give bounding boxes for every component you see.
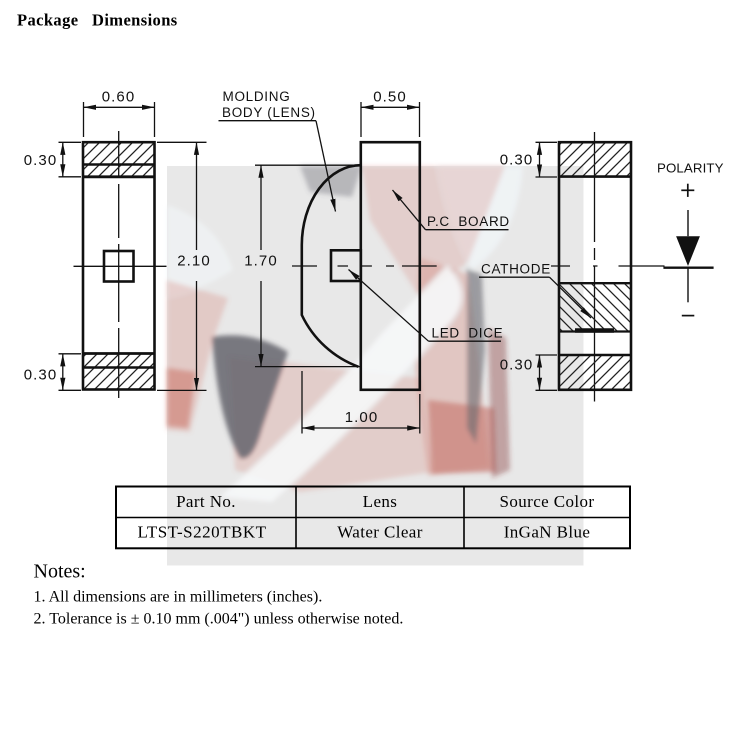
svg-text:LTST-S220TBKT: LTST-S220TBKT [138,523,267,542]
left view top hatch band [84,143,154,177]
svg-text:2.10: 2.10 [177,253,211,270]
middle view horizontal centerline [292,265,437,267]
svg-text:POLARITY: POLARITY [657,161,724,176]
left view center square [104,251,134,282]
watermark red left bright [167,368,196,428]
svg-text:InGaN Blue: InGaN Blue [504,523,591,542]
svg-text:0.30: 0.30 [500,356,534,373]
watermark red right column [414,258,490,476]
left view [59,102,207,403]
dim 0.30 top-right line [539,142,541,177]
right view cathode hatch band [560,284,630,332]
dim 1.70 line upper segment [260,165,262,250]
watermark maroon right edge [488,328,510,478]
watermark dark sliver right [467,268,485,444]
pc board outline [361,142,420,390]
svg-text:2. Tolerance is ± 0.10 mm (.00: 2. Tolerance is ± 0.10 mm (.004") unless… [34,611,404,628]
notes [34,561,404,628]
dim 1.70 extension lines [255,164,358,166]
left view square centerline cross [104,265,134,267]
svg-text:Water Clear: Water Clear [337,523,423,542]
right view bottom hatch band [560,356,630,390]
svg-text:0.50: 0.50 [373,88,407,105]
svg-text:Package: Package [17,11,78,30]
table [116,487,630,549]
svg-text:0.30: 0.30 [24,366,58,383]
cathode leader arrow [550,277,592,318]
middle view texts [244,88,407,426]
svg-text:P.C BOARD: P.C BOARD [427,214,510,229]
right view vertical centerline [594,132,596,402]
left view dimension texts [24,88,211,383]
right view top hatch band [560,143,630,176]
svg-text:Part No.: Part No. [176,492,236,511]
right view bottom band top line [559,354,631,357]
dim 0.50 line [361,106,420,108]
dim 0.30 top-left line [62,142,64,177]
dim 0.30 bottom-left line [62,354,64,391]
watermark white swoosh diagonal [220,266,461,502]
diode cathode bar [663,267,713,269]
svg-text:0.60: 0.60 [102,88,136,105]
watermark red top band [362,166,505,298]
right view body outline [559,142,631,390]
dim 2.10 line lower segment [196,281,198,390]
svg-text:BODY (LENS): BODY (LENS) [222,105,316,120]
dim 0.50 extension lines [360,102,362,137]
dim 2.10 line upper segment [196,142,198,250]
watermark dark wedge left [212,335,288,458]
polarity symbol [657,161,724,316]
diode cathode lead [687,268,689,303]
watermark red right bright [428,400,496,474]
molding body label underline [219,120,317,122]
led dice leader arrow [349,270,429,342]
dim 0.30 bottom-right line [539,355,541,390]
molding body leader arrow [316,121,336,212]
right view texts [500,152,534,374]
diode anode lead [687,210,689,236]
watermark base gray block [167,166,584,566]
diode triangle [676,236,700,266]
svg-text:LED DICE: LED DICE [432,325,504,340]
left view body outline [83,142,155,389]
svg-text:1.70: 1.70 [244,253,278,270]
svg-text:Lens: Lens [363,492,398,511]
watermark red left column [167,280,228,432]
left view bottom band top line [83,352,155,355]
left view vertical centerline [118,131,120,403]
dim 2.10 extension lines [157,141,207,143]
svg-text:Notes:: Notes: [34,561,86,583]
watermark red bottom center [228,356,432,492]
left view top band divider [83,163,155,165]
svg-text:Source Color: Source Color [500,492,595,511]
minus sign [682,315,695,317]
cathode label underline [479,276,550,278]
left view horizontal centerline [74,265,167,267]
right view cathode band top line [559,282,631,284]
right view [479,132,665,402]
dim 0.60 extension lines [83,102,85,137]
led dice label underline [429,340,502,342]
middle view [219,102,509,434]
svg-text:1. All dimensions are in milli: 1. All dimensions are in millimeters (in… [34,589,323,606]
dim 0.30 top-left extension lines [59,141,82,143]
svg-text:0.30: 0.30 [500,152,534,169]
right view cathode band bottom line [559,330,631,332]
svg-text:Dimensions: Dimensions [92,11,178,30]
left view bottom hatch band [84,354,154,389]
dim 1.70 line lower segment [260,281,262,367]
watermark dark patch top [300,166,362,197]
svg-text:1.00: 1.00 [345,409,379,426]
left view top band bottom line [83,175,155,178]
right view horizontal centerline [551,265,665,267]
plus sign [681,189,694,191]
svg-text:CATHODE: CATHODE [481,262,551,277]
left view bottom band divider [83,366,155,368]
dim 0.30 top-right extension lines [536,141,558,143]
molding lens profile [302,165,361,367]
table grid [116,487,630,549]
dim 0.30 bottom-left extension lines [59,353,82,355]
pc board leader arrow [393,190,426,230]
dim 0.60 line [84,106,155,108]
dim 1.00 line [302,427,420,429]
pc board label underline [426,229,509,231]
svg-text:0.30: 0.30 [24,152,58,169]
watermark pale swirl top right [437,166,523,270]
table texts [138,492,595,542]
dim 0.30 bottom-right extension lines [536,354,558,356]
watermark pale swirl left [167,205,233,297]
led dice square [331,250,361,281]
cathode thick mark [575,328,614,333]
svg-text:MOLDING: MOLDING [223,89,291,104]
watermark fade veil [167,166,584,566]
dim 1.00 extension lines [301,371,303,434]
title text [17,11,178,30]
right view top band bottom line [559,175,631,178]
